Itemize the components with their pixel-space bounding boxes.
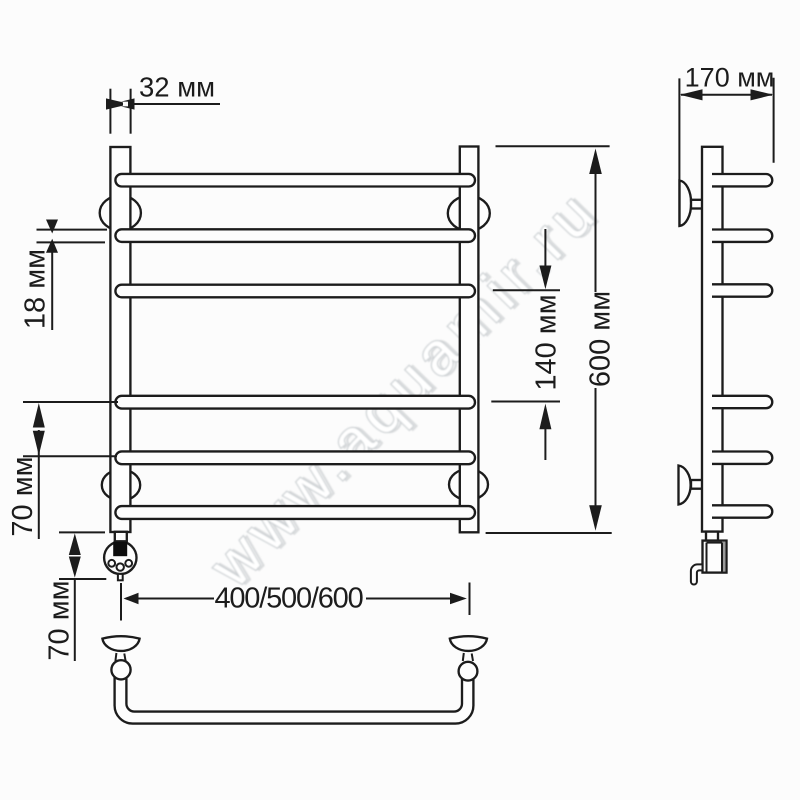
dim 140mm upper arrow [544,229,546,267]
heating element (front view) [104,532,136,574]
peg 4 [712,396,772,408]
bar 1 [115,174,475,187]
peg 6 [712,505,772,517]
power cord [691,564,703,584]
svg-text:140 мм: 140 мм [531,294,563,390]
dim 18mm leader line [51,243,53,330]
peg 3 [712,284,772,296]
dim 18mm tick bottom [37,241,106,243]
wall mount escutcheon bottom-right [449,469,488,500]
bar 6 [115,506,475,519]
dim 140mm lower arrow [544,428,546,460]
dim 70mm-b leader line [74,579,76,661]
side bracket top [680,181,704,227]
dim 18mm tick top [37,229,108,231]
dim 600mm tick top [496,145,610,147]
dim 170mm ext line left (wall line) [678,78,680,227]
svg-text:18 мм: 18 мм [20,249,52,329]
ext line right [469,583,471,616]
peg 1 [712,174,772,186]
dim 70mm-a tick top [23,401,118,403]
dim 70mm-a tick bottom [23,455,117,457]
element pin left [108,560,115,567]
ext line left [120,583,122,621]
dim line right part [366,598,452,600]
dim 32mm leader line [133,103,220,105]
dim 70mm-b tick top [59,531,105,533]
arrow left [124,593,139,605]
dim 170mm arrow right [751,89,774,100]
bar 3 [115,285,475,298]
dim 600mm arrow up [589,149,602,175]
side bracket bottom [679,466,704,505]
peg 5 [712,452,772,464]
svg-text:400/500/600: 400/500/600 [214,583,362,615]
right vertical rail [460,147,479,533]
bottom U-tube [115,672,474,724]
element body circle [104,542,136,574]
element pin right [125,560,132,567]
dim 32mm extension line left [109,89,111,134]
wall mount escutcheon top-left [100,196,141,231]
dim 600mm line upper [595,172,597,292]
bar 4 [115,396,475,409]
element stem [115,532,127,542]
dim 70mm-a leader line [38,430,40,539]
side element bevel shade [722,542,726,572]
dim 140mm tick top [493,289,560,291]
watermark www.aquamir.ru [197,174,615,601]
bottom dome left [102,636,139,651]
element pin middle [117,563,124,570]
dim 32mm extension line right [130,89,132,134]
side heating element [703,532,727,573]
dim 32mm arrows [106,98,135,109]
side element box [703,541,727,573]
dim line left part [136,598,214,600]
dim 600mm tick bottom [486,532,612,534]
dim 170mm ext line right [773,78,775,163]
dim 600mm line lower [595,388,597,510]
element black cap [113,542,127,557]
bottom ball right [459,662,478,681]
svg-text:70 мм: 70 мм [7,456,39,536]
dim 600mm arrow down [589,505,602,531]
arrow right [450,593,467,605]
bottom neck left [115,653,125,661]
dim 140mm tick bottom [491,401,560,403]
side element stem [706,532,718,541]
element bottom stem [118,574,123,580]
svg-text:70 мм: 70 мм [44,580,76,660]
side element inner lines [706,543,708,572]
left vertical rail [110,147,130,532]
dim 18mm arrows [46,220,58,253]
bottom dome right [450,636,487,651]
svg-text:170 мм: 170 мм [685,62,775,92]
svg-text:600 мм: 600 мм [585,291,617,387]
dim 70mm-b tick bottom [59,578,106,580]
wall mount escutcheon bottom-left [102,470,140,501]
bottom ball left [111,660,130,679]
dim 70mm-a double arrow [33,403,45,455]
dim 170mm arrow left [680,89,703,100]
dim 170mm line [681,94,772,96]
bottom neck right [463,653,473,661]
svg-text:32 мм: 32 мм [139,72,215,103]
bar 5 [115,451,475,464]
side rail [702,147,723,532]
bar 2 [115,229,475,242]
wall mount escutcheon top-right [448,196,490,231]
peg 2 [712,230,772,242]
dim 70mm-b double arrow [69,533,81,577]
